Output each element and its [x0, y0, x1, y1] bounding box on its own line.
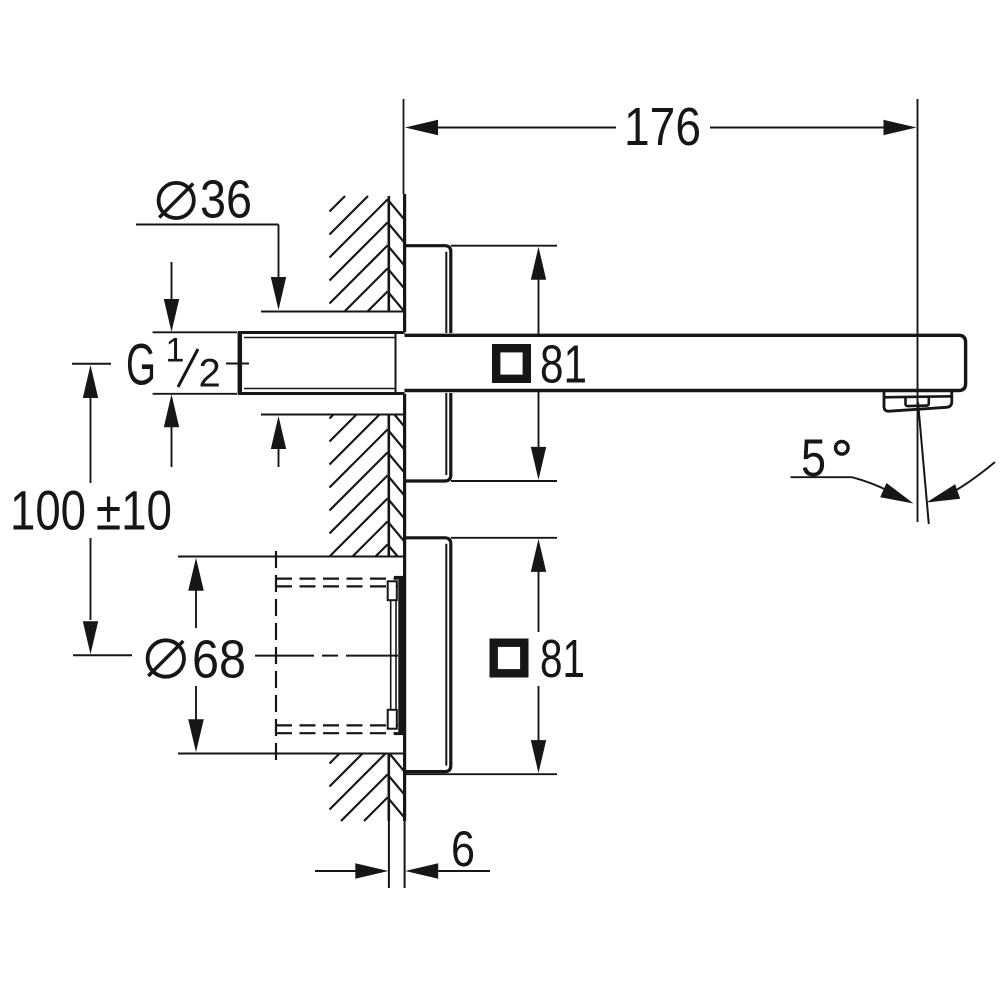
wall hatching (masonry section with tile layer chevron): [330, 196, 346, 212]
label diameter-36 symbol: [159, 183, 194, 218]
5deg arc left with arrow: [852, 477, 900, 497]
svg-text:68: 68: [192, 630, 246, 690]
5deg arc right with arrow: [943, 462, 995, 498]
label diameter-68 symbol: [148, 640, 184, 676]
lower escutcheon plate (square 81): [405, 538, 451, 772]
dimension 100+-10 ticks: [72, 363, 111, 365]
svg-text:G: G: [126, 333, 156, 398]
svg-text:176: 176: [624, 97, 701, 157]
dimension 176 line: [437, 127, 616, 129]
svg-text:1: 1: [166, 332, 185, 370]
square-81 upper dimension arrows: [531, 247, 546, 280]
threaded inlet nipple G1/2 outline: [238, 331, 405, 334]
svg-text:5: 5: [801, 429, 826, 488]
aerator inner line: [885, 396, 952, 397]
mounting flange inner lines: [390, 600, 392, 710]
dimension 176 extension line left: [403, 99, 405, 194]
svg-text:6: 6: [451, 821, 475, 877]
square symbol lower: [494, 643, 525, 674]
thread crest lines: [244, 337, 395, 339]
leader line for diameter 36: [136, 224, 279, 226]
hole edge lines for spout inlet (diam 36): [261, 311, 405, 313]
arrow to lower hole edge (diam 36): [271, 416, 286, 449]
dimension 100+-10 line and arrows: [83, 365, 98, 398]
svg-text:36: 36: [200, 170, 252, 230]
fixing clip lower: [388, 710, 397, 729]
square-81 upper extension lines: [451, 245, 557, 247]
dimension 6 extension lines: [388, 821, 390, 888]
svg-text:100: 100: [10, 479, 86, 542]
mounting flange bar: [398, 578, 403, 734]
concealed body hidden lines bottom: [276, 724, 398, 726]
concealed body centreline: [255, 655, 314, 657]
mounting flange caps: [394, 576, 404, 579]
spout body: [405, 335, 966, 390]
square-81 lower extension lines: [451, 537, 557, 539]
svg-text:81: 81: [540, 629, 585, 689]
spout axis slanted 5deg line: [918, 402, 929, 524]
dimension diam-68 arrows: [188, 558, 204, 591]
dimension 176 extension line right / vertical reference axis: [917, 99, 919, 522]
square symbol upper: [496, 348, 527, 379]
concealed body hidden lines top: [276, 577, 398, 579]
5deg leader line: [791, 476, 853, 478]
svg-text:±10: ±10: [96, 479, 172, 542]
concealed body hidden edge (vertical dashed): [275, 551, 277, 760]
aerator outline: [884, 392, 952, 412]
square-81 lower dimension arrows: [531, 539, 546, 572]
aerator outlet channel: [906, 397, 929, 406]
svg-text:81: 81: [540, 335, 587, 395]
G1/2 dimension arrows: [171, 262, 173, 300]
svg-text:2: 2: [199, 352, 221, 396]
wall finished-face line: [403, 194, 406, 332]
upper escutcheon plate (square 81): [405, 246, 451, 481]
fixing clip upper: [388, 581, 397, 600]
G1/2 extension lines: [153, 331, 237, 333]
pipe centreline tick: [226, 363, 249, 365]
hole edge lines for concealed body (diam 68): [178, 556, 405, 558]
wall rough-surface line: [387, 196, 390, 312]
dimension 6 arrows: [315, 870, 356, 872]
